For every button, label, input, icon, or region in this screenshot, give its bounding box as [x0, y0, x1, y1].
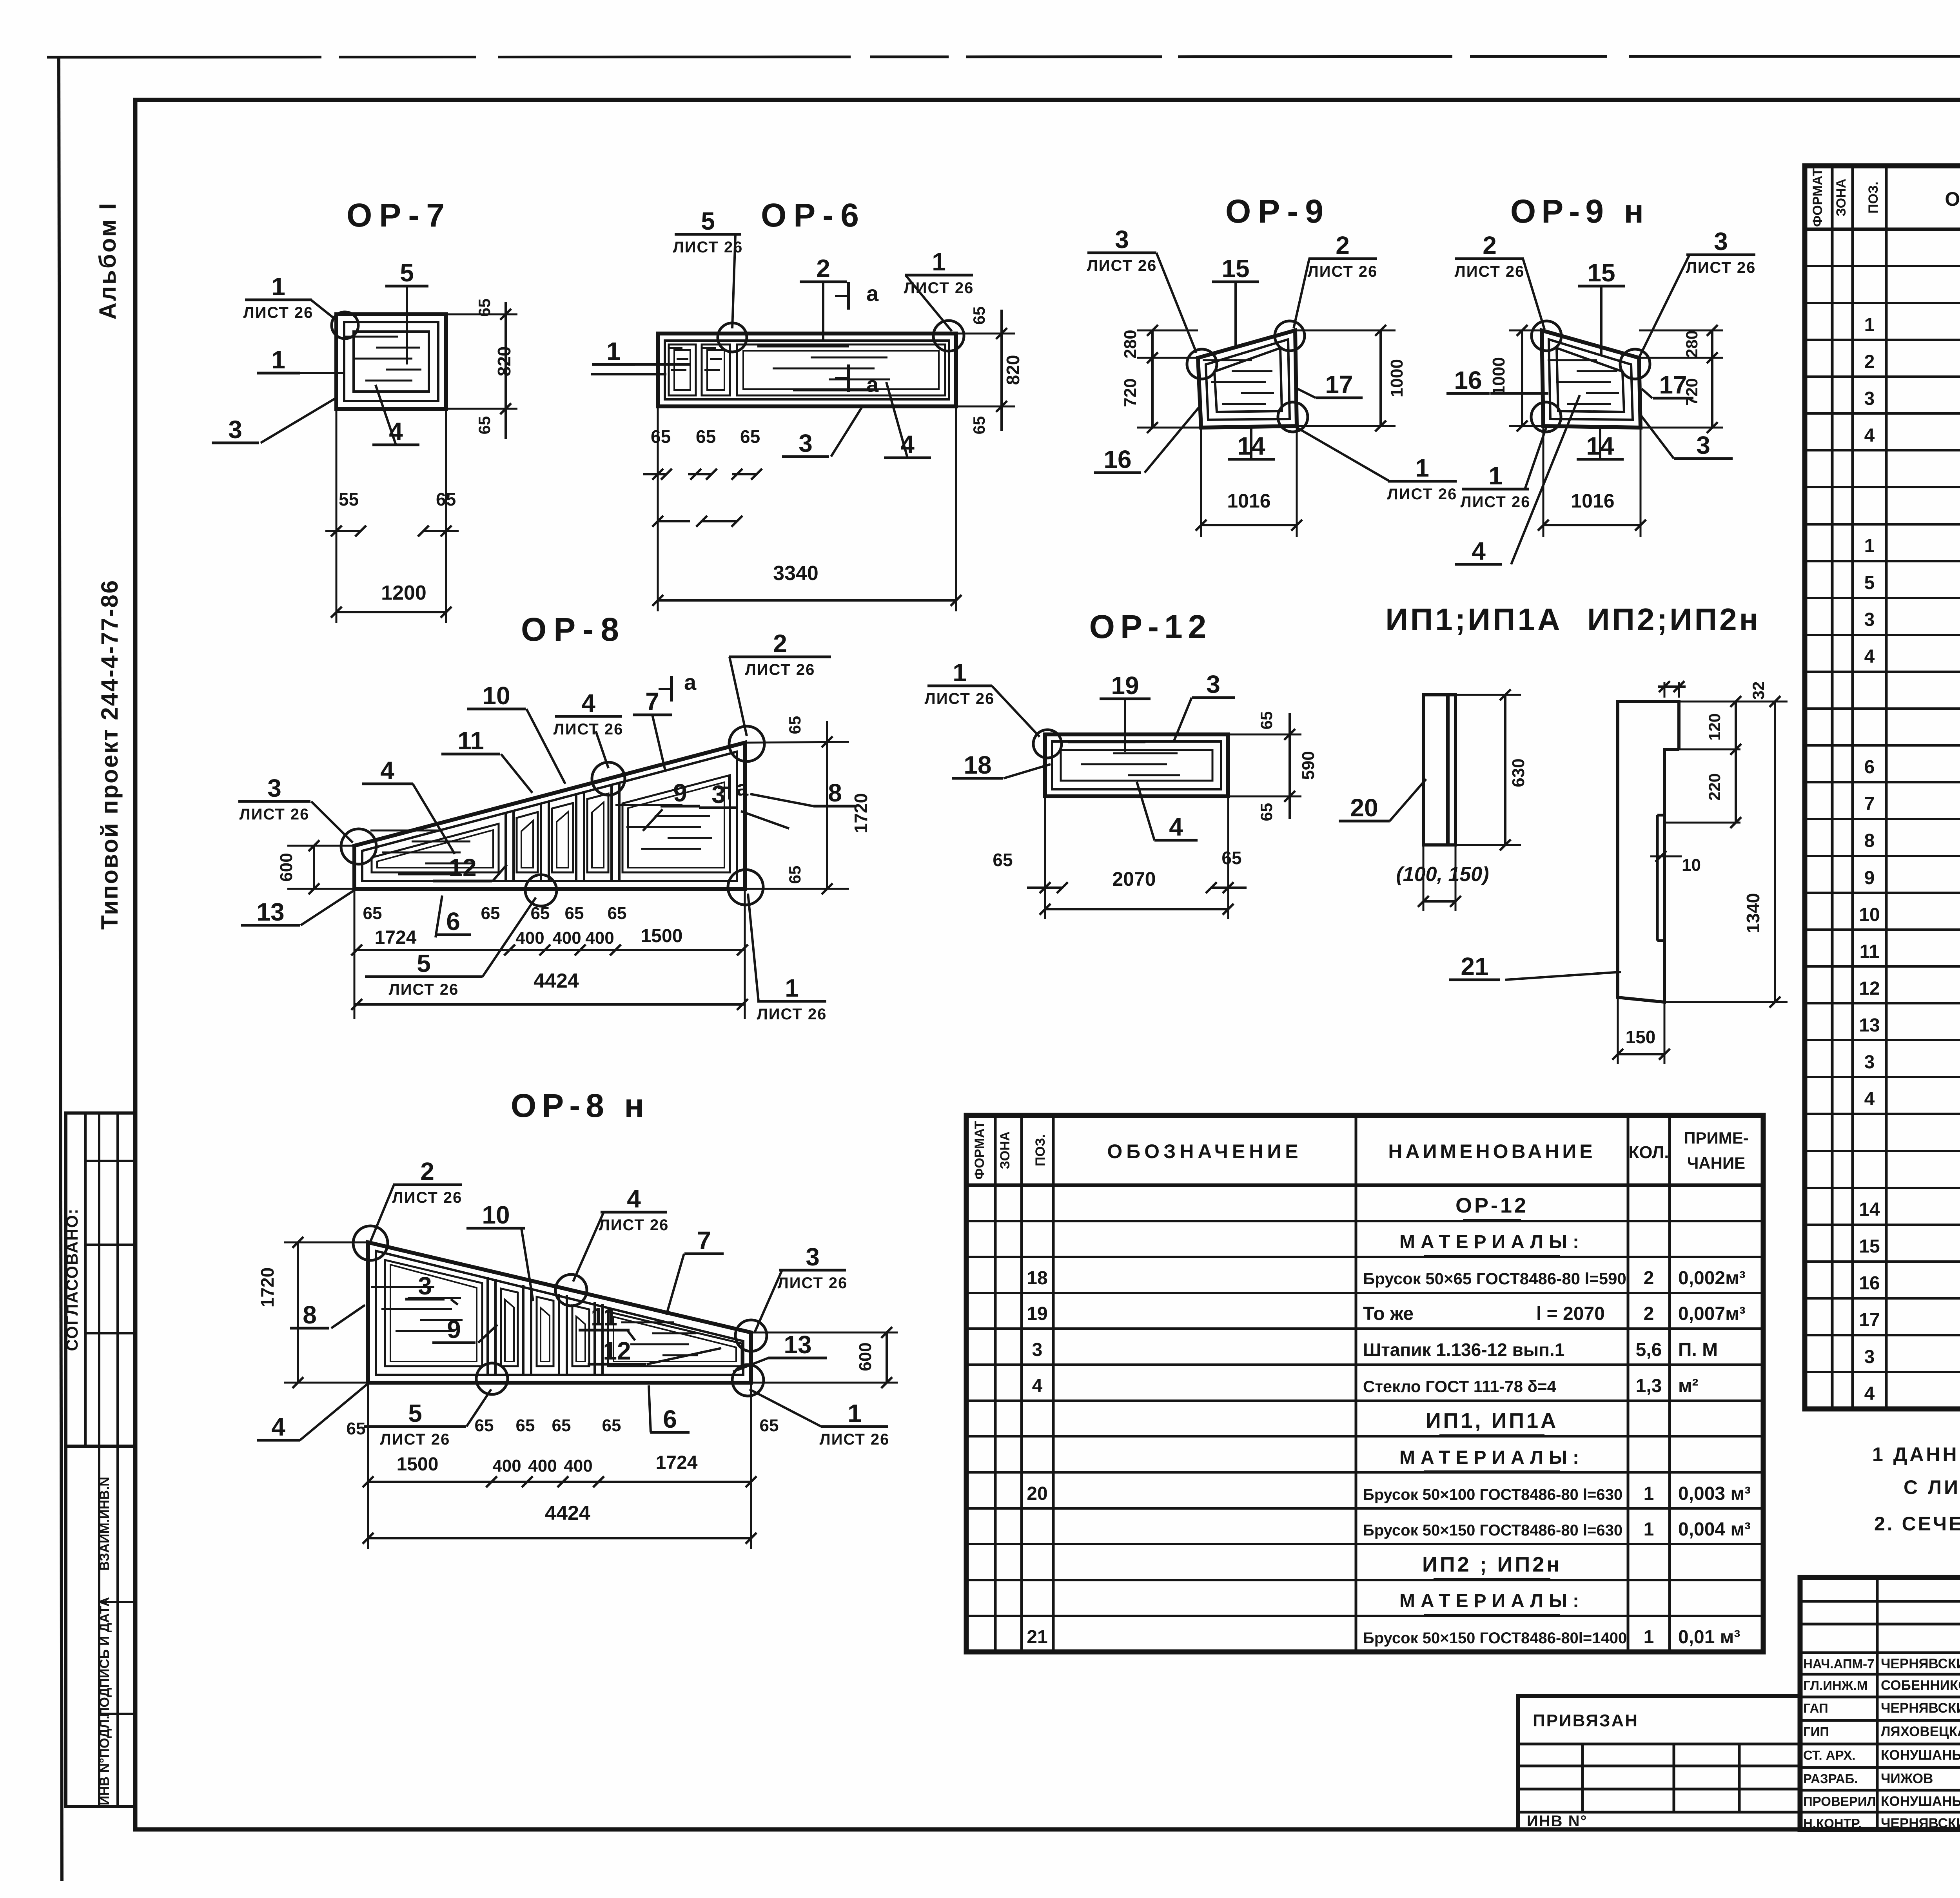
svg-text:1500: 1500: [641, 926, 683, 946]
svg-text:1: 1: [1864, 536, 1875, 557]
svg-text:Брусок 50×65 ГОСТ8486-80 l=590: Брусок 50×65 ГОСТ8486-80 l=590: [1363, 1269, 1626, 1288]
svg-text:11: 11: [1860, 941, 1880, 962]
svg-text:Брусок 50×150 ГОСТ8486-80l=140: Брусок 50×150 ГОСТ8486-80l=1400: [1363, 1630, 1627, 1647]
svg-text:ВЗАИМ.ИНВ.N: ВЗАИМ.ИНВ.N: [97, 1477, 112, 1571]
svg-text:ОР-12: ОР-12: [1455, 1194, 1528, 1217]
svg-text:220: 220: [1705, 773, 1724, 801]
svg-text:65: 65: [531, 904, 550, 923]
svg-text:1724: 1724: [656, 1452, 698, 1473]
svg-text:ЛИСТ 26: ЛИСТ 26: [925, 690, 995, 707]
svg-text:1200: 1200: [381, 582, 426, 604]
svg-text:15: 15: [1587, 259, 1615, 287]
svg-text:3: 3: [1115, 225, 1129, 254]
svg-text:ЛИСТ 26: ЛИСТ 26: [1455, 263, 1525, 280]
svg-text:1: 1: [606, 337, 621, 365]
svg-text:ЛИСТ 26: ЛИСТ 26: [554, 721, 624, 738]
ОР-6 dim right: [1000, 310, 1003, 431]
sheet outer edge left: [59, 57, 62, 1881]
svg-text:65: 65: [970, 416, 988, 435]
svg-text:1: 1: [848, 1399, 862, 1427]
svg-text:a: a: [866, 281, 879, 306]
svg-text:3: 3: [806, 1243, 820, 1271]
svg-text:ЧЕРНЯВСКИЙ: ЧЕРНЯВСКИЙ: [1881, 1656, 1960, 1671]
svg-text:ЛИСТ 26: ЛИСТ 26: [757, 1006, 827, 1023]
sheet outer cut line top (dashed): [47, 56, 1960, 57]
svg-text:5: 5: [701, 207, 715, 235]
svg-text:65: 65: [602, 1416, 621, 1435]
svg-text:400: 400: [492, 1456, 521, 1476]
svg-text:4: 4: [581, 689, 595, 717]
svg-text:2: 2: [1644, 1303, 1654, 1324]
ОР-8н mullions: [486, 1277, 489, 1375]
svg-text:ИНВ N°: ИНВ N°: [1527, 1813, 1588, 1830]
svg-text:65: 65: [696, 426, 716, 447]
svg-text:65: 65: [565, 904, 584, 923]
svg-text:600: 600: [277, 853, 296, 881]
svg-text:400: 400: [515, 928, 544, 948]
svg-text:4: 4: [1032, 1376, 1043, 1396]
svg-text:НАИМЕНОВАНИЕ: НАИМЕНОВАНИЕ: [1388, 1140, 1595, 1162]
svg-text:ЗОНА: ЗОНА: [998, 1131, 1013, 1169]
window frame ОР-12: [1045, 734, 1228, 796]
svg-text:720: 720: [1121, 378, 1140, 407]
ОР-8н dim right 600: [751, 1332, 898, 1334]
sidebar Согласовано columns: [84, 1113, 87, 1446]
svg-text:11: 11: [591, 1303, 617, 1331]
svg-text:1: 1: [1488, 462, 1503, 490]
svg-text:150: 150: [1626, 1027, 1656, 1047]
svg-text:КОЛ.: КОЛ.: [1628, 1143, 1669, 1162]
window frame ОР-8н outline: [368, 1242, 751, 1383]
ОР-12 dim right: [1228, 734, 1301, 736]
svg-text:65: 65: [347, 1419, 366, 1438]
ИП2 dim 220: [1664, 822, 1740, 824]
svg-text:13: 13: [256, 898, 284, 926]
svg-text:9: 9: [673, 779, 687, 807]
svg-text:3340: 3340: [773, 562, 818, 585]
svg-text:0,003 м³: 0,003 м³: [1678, 1483, 1751, 1504]
svg-text:2070: 2070: [1112, 868, 1156, 890]
svg-text:0,002м³: 0,002м³: [1678, 1268, 1746, 1289]
svg-text:2: 2: [816, 254, 830, 283]
svg-text:ЛИСТ 26: ЛИСТ 26: [673, 239, 743, 256]
ИП2 dim 1340: [1679, 701, 1788, 703]
svg-text:1000: 1000: [1387, 359, 1406, 397]
ОР-8 panes: [372, 824, 499, 872]
svg-text:8: 8: [1864, 830, 1875, 851]
svg-text:ЧАНИЕ: ЧАНИЕ: [1687, 1154, 1745, 1172]
svg-text:16: 16: [1454, 366, 1482, 394]
привязан box: [1518, 1696, 1800, 1829]
svg-text:КОНУШАНЫЙ: КОНУШАНЫЙ: [1881, 1747, 1960, 1763]
svg-text:С ЛИСТОМ 20.: С ЛИСТОМ 20.: [1904, 1476, 1960, 1498]
svg-text:5,6: 5,6: [1636, 1340, 1662, 1360]
svg-text:2: 2: [1864, 352, 1875, 372]
svg-text:a: a: [866, 372, 879, 397]
svg-text:12: 12: [1859, 978, 1880, 999]
svg-text:ЧИЖОВ: ЧИЖОВ: [1881, 1771, 1933, 1786]
svg-text:ЗОНА: ЗОНА: [1834, 179, 1849, 216]
svg-text:3: 3: [1864, 1052, 1875, 1073]
svg-text:ОР-6: ОР-6: [761, 197, 866, 234]
svg-text:ПОДПИСЬ И ДАТА: ПОДПИСЬ И ДАТА: [97, 1597, 112, 1717]
window frame ОР-9: [1198, 330, 1297, 428]
svg-text:ОР-12: ОР-12: [1089, 608, 1212, 645]
svg-text:ЛИСТ 26: ЛИСТ 26: [1087, 257, 1157, 274]
svg-text:ЛИСТ 26: ЛИСТ 26: [599, 1216, 669, 1234]
svg-text:3: 3: [418, 1272, 432, 1300]
svg-text:4: 4: [1169, 813, 1183, 841]
svg-text:4: 4: [271, 1413, 285, 1441]
svg-text:1: 1: [1644, 1627, 1654, 1648]
ОР-9н dim left 1000: [1509, 330, 1542, 332]
ОР-9н node circles: [1532, 321, 1561, 351]
ОР-8 glass hatch: [370, 830, 441, 832]
svg-text:ЛИСТ 26: ЛИСТ 26: [380, 1431, 450, 1448]
svg-text:16: 16: [1103, 445, 1131, 473]
svg-text:19: 19: [1027, 1303, 1047, 1324]
sidebar box Согласовано: [66, 1113, 135, 1446]
svg-text:0,01 м³: 0,01 м³: [1678, 1627, 1740, 1648]
svg-text:1: 1: [271, 346, 285, 374]
svg-text:ОР-7: ОР-7: [347, 197, 452, 234]
svg-text:4: 4: [1864, 425, 1875, 446]
sidebar box inventory: [66, 1446, 135, 1807]
window frame ОР-9н: [1542, 330, 1641, 428]
ОР-8н node circles: [353, 1226, 388, 1260]
svg-text:Брусок 50×100 ГОСТ8486-80 l=63: Брусок 50×100 ГОСТ8486-80 l=630: [1363, 1486, 1622, 1503]
svg-text:1: 1: [1644, 1519, 1654, 1540]
svg-text:ОР-8 н: ОР-8 н: [511, 1087, 650, 1124]
svg-text:15: 15: [1859, 1236, 1880, 1257]
ОР-9 dim left: [1137, 330, 1198, 332]
svg-text:ПОЗ.: ПОЗ.: [1866, 181, 1881, 214]
svg-text:РАЗРАБ.: РАЗРАБ.: [1803, 1771, 1858, 1786]
ОР-9н glass hatch: [1548, 359, 1597, 361]
svg-text:18: 18: [964, 751, 991, 779]
svg-text:4424: 4424: [534, 970, 579, 992]
svg-text:1: 1: [1644, 1483, 1654, 1504]
svg-text:65: 65: [1257, 711, 1276, 730]
svg-text:ЛИСТ 26: ЛИСТ 26: [820, 1431, 890, 1448]
impost ИП2 profile: [1618, 702, 1679, 1002]
svg-text:ПРИМЕ-: ПРИМЕ-: [1684, 1129, 1748, 1147]
svg-text:20: 20: [1350, 794, 1378, 822]
svg-text:820: 820: [1003, 355, 1023, 385]
svg-text:ГАП: ГАП: [1803, 1701, 1828, 1715]
ОР-9н dim right: [1639, 330, 1723, 332]
svg-text:2: 2: [773, 629, 787, 658]
svg-text:65: 65: [516, 1416, 535, 1435]
ОР-8 dim left 600: [287, 845, 354, 847]
window frame ОР-8 outline: [354, 743, 745, 889]
svg-text:4: 4: [380, 756, 394, 785]
svg-text:6: 6: [446, 907, 460, 935]
sidebar inventory columns: [98, 1446, 100, 1807]
svg-text:м²: м²: [1678, 1376, 1699, 1396]
svg-text:10: 10: [1682, 856, 1701, 875]
svg-text:15: 15: [1221, 254, 1249, 283]
svg-text:3: 3: [1206, 670, 1220, 698]
svg-text:МАТЕРИАЛЫ:: МАТЕРИАЛЫ:: [1399, 1447, 1584, 1468]
svg-text:65: 65: [786, 866, 804, 884]
svg-text:То же: То же: [1363, 1303, 1414, 1324]
svg-text:ЛИСТ 26: ЛИСТ 26: [243, 304, 314, 321]
svg-text:1720: 1720: [851, 793, 871, 833]
svg-text:6: 6: [1864, 757, 1875, 778]
svg-text:a: a: [684, 670, 697, 694]
svg-text:4: 4: [1864, 1089, 1875, 1109]
svg-text:600: 600: [856, 1342, 875, 1371]
svg-text:1: 1: [932, 248, 946, 276]
ИП2 dim 120: [1679, 749, 1740, 750]
svg-text:ПРИВЯЗАН: ПРИВЯЗАН: [1533, 1711, 1639, 1730]
svg-text:55: 55: [339, 489, 359, 509]
svg-text:ГЛ.ИНЖ.М: ГЛ.ИНЖ.М: [1803, 1678, 1867, 1693]
svg-text:18: 18: [1027, 1268, 1047, 1289]
svg-text:Н.КОНТР.: Н.КОНТР.: [1803, 1816, 1862, 1831]
svg-text:3: 3: [1714, 227, 1728, 256]
svg-text:65: 65: [475, 416, 494, 435]
svg-text:65: 65: [970, 306, 988, 325]
svg-text:ЛИСТ 26: ЛИСТ 26: [745, 661, 815, 678]
window frame ОР-6: [658, 334, 956, 406]
ОР-8н dim left 1720: [284, 1242, 368, 1244]
svg-text:13: 13: [1859, 1015, 1880, 1036]
svg-text:ПОЗ.: ПОЗ.: [1033, 1134, 1048, 1166]
ОР-9 glass hatch: [1203, 359, 1252, 361]
svg-text:65: 65: [760, 1416, 779, 1435]
svg-text:ИП2 ; ИП2н: ИП2 ; ИП2н: [1422, 1553, 1562, 1576]
svg-text:ФОРМАТ: ФОРМАТ: [972, 1121, 987, 1180]
svg-text:ЛЯХОВЕЦКАЯ: ЛЯХОВЕЦКАЯ: [1881, 1724, 1960, 1739]
svg-text:(100, 150): (100, 150): [1396, 863, 1489, 886]
svg-text:ОР-8: ОР-8: [521, 611, 626, 648]
svg-text:1724: 1724: [375, 927, 417, 948]
right table grid: [1805, 166, 1960, 1409]
window frame ОР-7: [336, 314, 446, 409]
svg-text:20: 20: [1027, 1483, 1047, 1504]
svg-text:17: 17: [1859, 1310, 1880, 1331]
ОР-8 node circles: [341, 829, 376, 864]
ОР-8н panes: [385, 1260, 482, 1366]
svg-text:ЛИСТ 26: ЛИСТ 26: [1461, 493, 1531, 511]
svg-text:1: 1: [953, 658, 967, 687]
svg-text:720: 720: [1682, 378, 1701, 406]
svg-text:400: 400: [564, 1456, 592, 1476]
sidebar inventory rows: [99, 1601, 135, 1603]
svg-text:1340: 1340: [1743, 893, 1763, 933]
svg-text:10: 10: [482, 1201, 510, 1229]
svg-text:12: 12: [603, 1337, 631, 1365]
svg-text:9: 9: [1864, 868, 1875, 888]
svg-text:590: 590: [1299, 751, 1318, 780]
svg-text:5: 5: [400, 259, 414, 287]
svg-text:4: 4: [1864, 646, 1875, 667]
svg-text:Альбом I: Альбом I: [94, 202, 121, 320]
svg-text:65: 65: [786, 716, 804, 734]
svg-text:2. СЕЧЕНИЕ а-а РАЗРАБОТАНО: 2. СЕЧЕНИЕ а-а РАЗРАБОТАНО НА ЛИСТЕ 23.: [1874, 1513, 1960, 1535]
svg-text:СТ. АРХ.: СТ. АРХ.: [1803, 1748, 1856, 1762]
svg-text:11: 11: [457, 727, 484, 755]
svg-text:1016: 1016: [1227, 490, 1270, 512]
svg-text:32: 32: [1749, 682, 1768, 700]
svg-text:2: 2: [1483, 231, 1497, 259]
svg-text:1500: 1500: [397, 1454, 439, 1475]
svg-text:65: 65: [481, 904, 500, 923]
ОР-9 dim right 1000: [1295, 330, 1396, 332]
svg-text:3: 3: [1696, 431, 1710, 459]
svg-text:7: 7: [697, 1226, 711, 1254]
svg-text:1 ДАННЫЙ ЛИСТ РАССМАТРИВАТЬ: 1 ДАННЫЙ ЛИСТ РАССМАТРИВАТЬ СОВМЕСТНО: [1872, 1443, 1960, 1465]
svg-text:4: 4: [1472, 537, 1486, 565]
svg-text:СОГЛАСОВАНО:: СОГЛАСОВАНО:: [63, 1208, 81, 1351]
ОР-8 mullions: [505, 812, 507, 881]
svg-text:ИП2;ИП2н: ИП2;ИП2н: [1587, 602, 1760, 637]
ОР-9 node circles: [1187, 349, 1217, 379]
ОР-6 glass hatch: [757, 346, 849, 348]
svg-text:ЛИСТ 26: ЛИСТ 26: [389, 981, 459, 998]
svg-text:МАТЕРИАЛЫ:: МАТЕРИАЛЫ:: [1399, 1591, 1584, 1612]
svg-text:МАТЕРИАЛЫ:: МАТЕРИАЛЫ:: [1399, 1232, 1584, 1253]
svg-text:1: 1: [785, 974, 799, 1002]
svg-text:12: 12: [448, 854, 476, 882]
svg-text:8: 8: [303, 1301, 317, 1329]
svg-text:ОБОЗНАЧЕНИЕ: ОБОЗНАЧЕНИЕ: [1945, 188, 1960, 210]
ОР-6 node circles: [718, 323, 747, 352]
svg-text:0,004 м³: 0,004 м³: [1678, 1519, 1751, 1540]
svg-text:13: 13: [784, 1331, 811, 1359]
svg-text:ЛИСТ 26: ЛИСТ 26: [1387, 486, 1457, 503]
svg-text:ФОРМАТ: ФОРМАТ: [1810, 168, 1825, 227]
svg-text:630: 630: [1509, 758, 1528, 787]
ОР-8 dim right: [745, 742, 849, 743]
svg-text:7: 7: [645, 687, 659, 716]
svg-text:10: 10: [482, 682, 510, 710]
svg-text:ЛИСТ 26: ЛИСТ 26: [240, 806, 310, 823]
svg-text:280: 280: [1682, 330, 1701, 358]
svg-text:ЛИСТ 26: ЛИСТ 26: [1308, 263, 1378, 280]
svg-text:a: a: [736, 776, 749, 800]
svg-text:14: 14: [1859, 1199, 1880, 1220]
svg-text:7: 7: [1864, 794, 1875, 814]
svg-text:ОР-9 н: ОР-9 н: [1510, 193, 1649, 230]
svg-text:3: 3: [1864, 388, 1875, 409]
svg-text:3: 3: [1864, 1347, 1875, 1367]
svg-text:ПРОВЕРИЛ: ПРОВЕРИЛ: [1803, 1794, 1876, 1809]
svg-text:17: 17: [1325, 370, 1353, 399]
svg-text:65: 65: [475, 299, 494, 317]
svg-text:65: 65: [740, 426, 760, 447]
svg-text:3: 3: [1032, 1340, 1043, 1360]
svg-text:ИНВ N°ПОДЛ.: ИНВ N°ПОДЛ.: [97, 1715, 112, 1805]
svg-text:ОБОЗНАЧЕНИЕ: ОБОЗНАЧЕНИЕ: [1107, 1140, 1302, 1162]
svg-text:65: 65: [552, 1416, 571, 1435]
svg-text:ЧЕРНЯВСКИЙ: ЧЕРНЯВСКИЙ: [1881, 1700, 1960, 1716]
svg-text:10: 10: [1859, 905, 1880, 925]
svg-text:65: 65: [1221, 848, 1241, 868]
svg-text:3: 3: [711, 780, 726, 809]
svg-text:КОНУШАНЫЙ: КОНУШАНЫЙ: [1881, 1793, 1960, 1809]
svg-text:19: 19: [1111, 671, 1139, 700]
ОР-7 glass hatch: [345, 336, 398, 338]
svg-text:21: 21: [1027, 1627, 1047, 1648]
svg-text:8: 8: [828, 779, 842, 807]
svg-text:400: 400: [552, 928, 581, 948]
svg-text:820: 820: [494, 346, 514, 377]
svg-text:65: 65: [608, 904, 627, 923]
ОР-7 dim right: [505, 302, 507, 439]
svg-text:21: 21: [1461, 952, 1488, 981]
svg-text:4424: 4424: [545, 1502, 590, 1525]
svg-text:6: 6: [663, 1405, 677, 1433]
svg-text:ЛИСТ 26: ЛИСТ 26: [904, 279, 974, 297]
svg-text:4: 4: [627, 1185, 641, 1213]
svg-text:Стекло ГОСТ 111-78 δ=4: Стекло ГОСТ 111-78 δ=4: [1363, 1377, 1557, 1396]
svg-text:ЛИСТ 26: ЛИСТ 26: [1686, 259, 1756, 276]
svg-text:5: 5: [417, 949, 431, 977]
svg-text:1720: 1720: [257, 1267, 278, 1307]
svg-text:4: 4: [1864, 1383, 1875, 1404]
svg-text:ГИП: ГИП: [1803, 1724, 1829, 1739]
svg-text:16: 16: [1859, 1273, 1880, 1294]
svg-text:1: 1: [1415, 454, 1429, 482]
svg-text:2: 2: [1644, 1268, 1654, 1289]
center table grid: [966, 1115, 1763, 1652]
svg-text:3: 3: [1864, 609, 1875, 630]
svg-text:ЛИСТ 26: ЛИСТ 26: [392, 1189, 463, 1206]
svg-text:Типовой проект 244-4-77-86: Типовой проект 244-4-77-86: [96, 579, 123, 930]
svg-text:65: 65: [993, 850, 1013, 870]
svg-text:400: 400: [528, 1456, 557, 1476]
svg-text:3: 3: [267, 774, 281, 802]
svg-text:65: 65: [475, 1416, 494, 1435]
svg-text:5: 5: [408, 1399, 422, 1427]
svg-text:1000: 1000: [1489, 357, 1508, 395]
ОР-7 corner node circle: [332, 312, 358, 339]
svg-text:0,007м³: 0,007м³: [1678, 1303, 1746, 1324]
svg-text:ЛИСТ 26: ЛИСТ 26: [778, 1274, 848, 1292]
ОР-12 glass hatch: [1068, 741, 1145, 743]
svg-text:ЧЕРНЯВСКИЙ: ЧЕРНЯВСКИЙ: [1881, 1815, 1960, 1831]
ИП1 dim 630: [1455, 694, 1521, 696]
svg-text:Брусок 50×150 ГОСТ8486-80 l=63: Брусок 50×150 ГОСТ8486-80 l=630: [1363, 1522, 1622, 1539]
svg-text:3: 3: [799, 429, 813, 457]
svg-text:1016: 1016: [1571, 490, 1614, 512]
title block grid: [1800, 1577, 1960, 1829]
svg-text:l = 2070: l = 2070: [1536, 1303, 1605, 1324]
sidebar Согласовано rows: [85, 1160, 135, 1162]
svg-text:1,3: 1,3: [1636, 1376, 1662, 1396]
svg-text:3: 3: [228, 415, 242, 444]
svg-text:Штапик 1.136-12 вып.1: Штапик 1.136-12 вып.1: [1363, 1340, 1564, 1360]
svg-text:2: 2: [420, 1157, 434, 1186]
svg-text:9: 9: [447, 1315, 461, 1343]
svg-text:ИП1;ИП1А: ИП1;ИП1А: [1385, 602, 1562, 637]
svg-text:120: 120: [1705, 713, 1724, 741]
svg-text:65: 65: [651, 426, 671, 447]
ОР-12 node circle: [1033, 730, 1062, 758]
svg-text:280: 280: [1121, 330, 1140, 358]
svg-text:1: 1: [1864, 315, 1875, 335]
svg-text:5: 5: [1864, 573, 1875, 593]
svg-text:П. М: П. М: [1678, 1340, 1718, 1360]
svg-text:65: 65: [363, 904, 382, 923]
ИП2 dim 32: [1664, 682, 1666, 698]
svg-text:ОР-9: ОР-9: [1225, 193, 1330, 230]
svg-text:2: 2: [1336, 231, 1350, 259]
impost ИП1 profile: [1423, 695, 1455, 845]
